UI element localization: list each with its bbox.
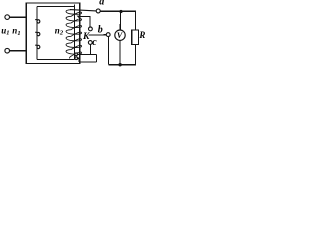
voltmeter V circle [115,30,125,40]
primary winding n1 loop 2 [35,31,37,33]
secondary upper end tap terminal [75,53,78,56]
wiper branch down [107,37,109,65]
primary winding n1 loop 1 [35,19,37,21]
resistor R body [132,30,139,45]
junction dot bottom [118,63,121,66]
svg-text:b: b [98,24,103,35]
junction dot top [119,10,122,13]
resistor branch lower wire [134,45,136,65]
terminal left-top [5,15,10,20]
bottom wire [108,64,136,66]
wire from left-top terminal to core [9,16,26,18]
svg-text:n2: n2 [55,25,64,36]
terminal c [88,41,92,45]
wire bottom of end-tap loop [79,61,96,63]
secondary lower end tap terminal [75,57,78,60]
wire from upper end tap [78,54,97,56]
resistor branch upper wire [134,11,136,30]
secondary winding n2 coil [66,10,82,59]
svg-text:a: a [99,0,104,8]
wire secondary top to terminal a [70,10,96,11]
svg-text:n1: n1 [12,26,20,37]
wire right vertical of end-tap loop [96,55,98,63]
terminal a [96,9,100,13]
core inner left edge / primary winding axis [36,6,38,59]
svg-text:K: K [82,32,90,42]
svg-text:c: c [92,37,97,48]
tap c wire down [90,44,92,54]
transformer core outer rectangle [26,3,79,63]
svg-text:V: V [117,31,123,40]
primary winding n1 loop 3 [35,44,37,46]
wiper terminal circle [106,33,110,37]
core inner bottom edge [37,58,75,60]
terminal left-bottom [5,48,10,53]
svg-text:R: R [138,30,145,40]
svg-text:u1: u1 [1,25,9,36]
core inner right edge / secondary winding axis [74,4,76,59]
top wire from a to resistor branch [100,10,136,12]
voltmeter branch lower wire [119,40,121,64]
terminal b [89,27,93,31]
voltmeter branch upper wire [119,11,121,30]
wire from left-bottom terminal to core [9,50,26,52]
wiper wire from switch K terminal [88,34,106,36]
tap b arrowhead on coil [77,16,81,20]
tap b wire [79,16,90,27]
wire from lower end tap [78,58,80,62]
core inner top edge [37,5,75,7]
